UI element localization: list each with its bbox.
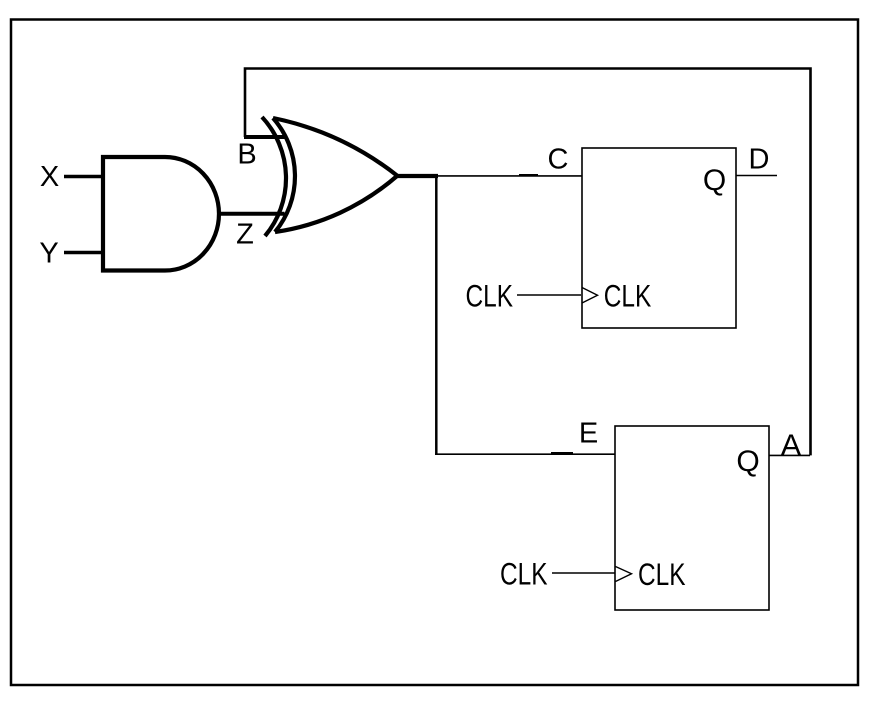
svg-text:A: A (781, 428, 802, 463)
svg-text:Y: Y (39, 238, 58, 270)
svg-text:E: E (579, 418, 598, 450)
svg-text:CLK: CLK (604, 278, 652, 314)
svg-text:X: X (40, 161, 59, 193)
svg-text:B: B (237, 139, 256, 171)
svg-text:Q: Q (736, 445, 759, 478)
svg-text:D: D (749, 144, 770, 176)
svg-text:Z: Z (236, 219, 254, 251)
svg-text:CLK: CLK (466, 278, 514, 314)
svg-text:CLK: CLK (500, 556, 548, 592)
svg-text:CLK: CLK (638, 556, 686, 592)
svg-text:C: C (548, 144, 569, 176)
svg-text:Q: Q (703, 164, 726, 197)
